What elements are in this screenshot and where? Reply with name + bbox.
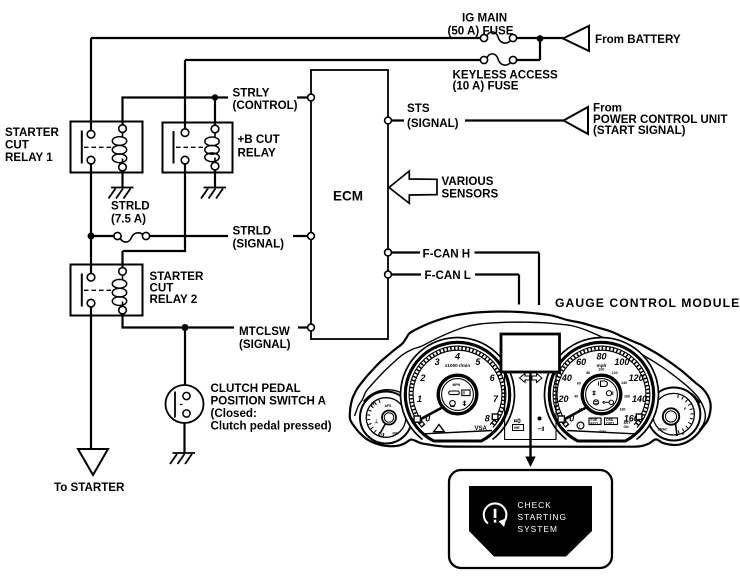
svg-text:80: 80 [586,371,590,375]
wire: relay1 switch out down to STRLD node [90,164,92,236]
wire: STRLD fuse to ECM STRLD pin [150,235,308,237]
speedometer center icons [593,381,614,405]
ECM block U1 [311,70,388,339]
node: battery junction [537,35,544,42]
svg-text:E: E [682,431,685,436]
svg-text:80: 80 [596,351,606,361]
wire: STRLD node to STRLD fuse [94,235,114,237]
ground: +B relay coil ground [201,188,226,199]
wire: F-CAN L line [392,275,520,305]
svg-text:100: 100 [598,368,604,372]
arrow: cluster to warning display [529,374,531,459]
svg-text:60: 60 [576,357,586,367]
svg-text:GAUGE CONTROL MODULE: GAUGE CONTROL MODULE [555,296,740,310]
pin: ECM F-CAN H [385,249,392,256]
wire: STS signal line [392,119,564,121]
svg-text:(SIGNAL): (SIGNAL) [233,238,285,251]
cluster center lower panel [505,372,556,440]
speedometer bottom indicators [577,418,631,434]
tachometer center icons [449,383,470,407]
svg-text:−‖: −‖ [538,426,545,433]
wire: relay2 coil out to MTCLSW node [123,314,182,328]
svg-text:40: 40 [561,373,572,383]
wire: STRLD node down to relay2 switch pin [90,236,92,274]
pin: ECM STRLY [308,94,315,101]
svg-text:ON: ON [624,425,630,429]
svg-text:INH: INH [393,432,399,436]
gauge cluster: inner rim line [355,322,706,430]
svg-text:CUT: CUT [5,139,29,152]
svg-text:(CONTROL): (CONTROL) [233,99,298,112]
svg-text:140: 140 [632,394,647,404]
relay K2 +B CUT RELAY [163,123,233,173]
svg-text:(START SIGNAL): (START SIGNAL) [593,124,686,137]
svg-text:ECM: ECM [333,189,363,204]
svg-text:120: 120 [629,373,644,383]
svg-text:STRLY: STRLY [233,87,270,100]
node: STRLY junction [212,94,218,100]
svg-text:SMAC: SMAC [658,428,669,432]
svg-text:From BATTERY: From BATTERY [595,33,681,46]
pin: ECM F-CAN L [385,271,392,278]
svg-text:CNTL: CNTL [606,421,615,425]
svg-text:60: 60 [577,381,581,385]
wire: MTCLSW node to ECM pin [189,326,308,328]
wire: keyless rail down to +B cut relay switch pin [184,60,186,129]
svg-text:AC: AC [378,433,384,438]
svg-text:180: 180 [620,408,626,412]
svg-text:20: 20 [579,408,583,412]
fuse F1 IG MAIN (50 A) [480,32,516,43]
svg-text:F-CAN H: F-CAN H [423,248,471,261]
svg-text:(50 A) FUSE: (50 A) FUSE [448,25,514,38]
svg-text:RELAY: RELAY [238,147,276,160]
svg-text:(SIGNAL): (SIGNAL) [407,117,459,130]
svg-text:20: 20 [557,394,568,404]
sub-gauge: left AFS gauge housing [360,390,417,444]
svg-text:M: M [371,402,375,407]
wire: STRLY control line relay1 coil to ECM [123,98,308,125]
wire: +B relay switch out to relay2 coil [123,164,186,268]
speedometer inner km scale numbers [574,368,630,412]
svg-text:1: 1 [417,394,422,404]
cluster center swap arrows [520,374,530,383]
svg-text:MPN: MPN [453,383,461,387]
svg-text:RELAY 2: RELAY 2 [150,293,198,306]
svg-text:IG MAIN: IG MAIN [462,12,507,25]
svg-text:IHE: IHE [514,426,520,430]
connector: To STARTER triangle [78,449,108,475]
svg-text:+B CUT: +B CUT [238,133,280,146]
svg-text:STARTER: STARTER [5,126,60,139]
svg-text:x1000 r/min: x1000 r/min [445,363,470,368]
gauge: speedometer bezel and dial [545,338,659,441]
wire: battery feed top rail to IG MAIN fuse [91,37,481,39]
svg-text:8: 8 [485,414,490,424]
svg-text:140: 140 [621,381,627,385]
arrow: VARIOUS SENSORS block arrow [389,171,437,203]
svg-text:CHECK: CHECK [518,500,552,510]
svg-text:POSITION SWITCH A: POSITION SWITCH A [211,395,327,408]
svg-text:RELAY 1: RELAY 1 [5,151,53,164]
ground: clutch switch ground [170,453,195,464]
svg-text:3: 3 [435,357,440,367]
pin: ECM STRLD [308,233,315,240]
svg-text:MTCLSW: MTCLSW [239,325,290,338]
svg-text:160: 160 [624,395,630,399]
svg-text:OBS: OBS [599,430,607,434]
svg-text:STRLD: STRLD [111,200,150,213]
cluster center indicator icons [513,417,545,434]
svg-text:!: ! [579,424,580,429]
wire: +B relay coil to ground [214,170,216,187]
gauge: tachometer bezel and dial [401,338,515,441]
relay K3 STARTER CUT RELAY 2 [71,265,143,316]
svg-text:2: 2 [419,373,425,383]
wire: IG MAIN fuse to junction and battery triangle [517,37,564,39]
svg-text:¤0: ¤0 [514,418,522,425]
svg-text:STS: STS [407,102,430,115]
svg-text:(7.5 A): (7.5 A) [111,213,146,226]
svg-text:To STARTER: To STARTER [54,481,125,494]
fuse F3 STRLD (7.5 A) [114,232,150,242]
svg-text:SYSTEM: SYSTEM [518,524,558,534]
svg-text:(Closed:: (Closed: [211,407,257,420]
svg-text:VSA: VSA [475,426,488,432]
svg-text:120: 120 [612,371,618,375]
svg-text:(10 A) FUSE: (10 A) FUSE [453,80,519,93]
svg-text:(SIGNAL): (SIGNAL) [239,338,291,351]
svg-text:AFS: AFS [385,404,393,408]
svg-text:STRLD: STRLD [233,225,272,238]
wire: F-CAN H line [392,253,540,306]
svg-text:F-CAN L: F-CAN L [425,269,471,282]
wire: MTCLSW node down to clutch pedal switch [184,328,186,386]
fuse F2 KEYLESS ACCESS (10 A) [480,54,516,65]
gauge cluster: outer housing outline [350,312,711,447]
cluster center display rectangle [501,334,560,372]
wire: keyless fuse rail [185,59,481,61]
warning display: CHECK STARTING SYSTEM box [449,470,612,568]
switch S1 CLUTCH PEDAL POSITION SWITCH A [166,385,204,423]
svg-text:100: 100 [614,357,629,367]
wire: relay2 switch out down to starter [90,307,92,449]
wire: relay1 coil to ground [121,171,123,187]
warning display: exclamation icon [484,503,507,527]
svg-text:STARTING: STARTING [518,512,568,522]
connector: From POWER CONTROL UNIT triangle [564,107,589,134]
svg-text:CLUTCH PEDAL: CLUTCH PEDAL [211,382,301,395]
wire: keyless fuse to battery junction [517,41,541,60]
connector: From BATTERY triangle [563,26,589,51]
tachometer warning triangle [434,425,445,432]
wire: +B cut relay coil to STRLY node [214,98,216,126]
node: MTCLSW junction [182,324,189,331]
wire: clutch switch to ground [183,423,185,453]
svg-text:ECO: ECO [591,421,599,425]
svg-text:⊥: ⊥ [374,419,379,425]
svg-text:SENSORS: SENSORS [442,188,499,201]
relay K1 STARTER CUT RELAY 1 [71,122,143,173]
svg-text:4: 4 [454,351,460,361]
svg-text:40: 40 [574,395,578,399]
pin: ECM STS [385,117,392,124]
svg-text:VARIOUS: VARIOUS [442,175,494,188]
node: STRLD junction [88,233,95,240]
sub-gauge: right fuel gauge housing [647,388,701,441]
ground: relay1 coil ground [109,188,134,199]
wire: top rail down to starter cut relay 1 switch pin [90,38,92,131]
pin: ECM MTCLSW [308,324,315,331]
svg-text:Clutch pedal pressed): Clutch pedal pressed) [211,420,332,433]
